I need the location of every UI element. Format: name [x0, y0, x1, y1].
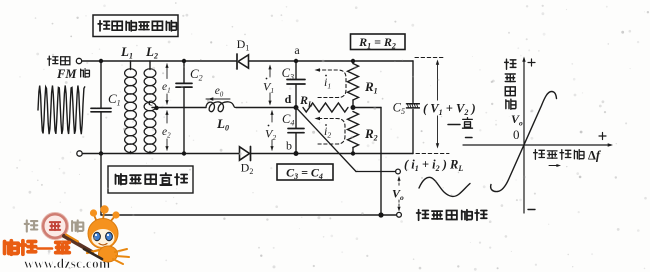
node C1 top [99, 59, 103, 63]
svg-text:L2: L2 [145, 44, 158, 61]
dimension arrow V1+V2 [437, 61, 439, 147]
svg-text:V2: V2 [265, 127, 276, 143]
svg-text:i2: i2 [324, 124, 331, 140]
label box: R1 = R2 [351, 34, 406, 50]
S curve [491, 92, 557, 192]
graph vertical axis [523, 59, 525, 214]
dashed ref line top [415, 57, 444, 59]
svg-text:R1 = R2: R1 = R2 [358, 35, 396, 51]
wire right edge lower [412, 110, 414, 154]
wire right edge upper [412, 61, 414, 103]
watermark 找 [25, 220, 38, 231]
wire center tap c [152, 107, 162, 109]
svg-text:D2: D2 [241, 161, 254, 177]
wire diagonal from node d [297, 109, 356, 172]
inductor L2 secondary coil [149, 61, 151, 70]
svg-text:e1: e1 [162, 81, 171, 95]
svg-text:R2: R2 [364, 126, 378, 143]
capacitor C1 [91, 107, 111, 109]
right arrow under axis label [549, 165, 559, 167]
wire C2 branch [183, 61, 185, 83]
svg-text:( i1 + i2 ) RL: ( i1 + i2 ) RL [404, 158, 463, 174]
resistor R2 [348, 112, 359, 148]
text: 输入 input [48, 56, 58, 65]
svg-text:D1: D1 [237, 37, 250, 53]
resistor R1 [352, 61, 354, 64]
wire C4 branch [295, 108, 297, 129]
svg-text:L1: L1 [120, 44, 133, 61]
label box: input tuning circuit 输入调谐回路 [93, 15, 178, 37]
diode D1 [236, 54, 238, 69]
svg-text:L0: L0 [216, 116, 229, 133]
input terminal top [76, 58, 81, 63]
wire bottom rail right of D2 [251, 153, 414, 155]
inductor L0 [206, 102, 236, 112]
node c [154, 106, 158, 110]
svg-text:V1: V1 [263, 80, 274, 96]
svg-text:a: a [294, 43, 300, 57]
node R1 R2 junction [351, 105, 356, 110]
svg-text:Δf: Δf [588, 149, 602, 163]
wire bottom rail left [83, 153, 240, 155]
e1 dimension arrow [166, 64, 168, 79]
node C1 bottom [99, 151, 103, 155]
wire to upper output terminal [356, 171, 396, 173]
label box: tuned at IF 调谐在中频 [108, 166, 193, 193]
wire top rail right of D1 [249, 60, 413, 62]
wire L0 to node d [236, 107, 296, 109]
capacitor C5 electrolytic [407, 103, 420, 105]
watermark 维库一下 [5, 241, 19, 255]
svg-text:C4: C4 [282, 112, 294, 128]
text (V1+V2) [420, 101, 481, 116]
capacitor C4 [288, 128, 304, 130]
capacitor C2 [176, 82, 192, 84]
node R2 bottom [351, 151, 355, 155]
svg-text:0: 0 [513, 127, 520, 142]
text 频率偏移 frequency deviation [534, 150, 545, 160]
node a [294, 59, 298, 63]
resistor RL horizontal [303, 103, 348, 112]
svg-text:i1: i1 [324, 75, 331, 91]
wire vertical drop to output [380, 108, 382, 216]
node b [294, 151, 299, 156]
plus right [599, 135, 606, 137]
diode D2 [240, 147, 250, 160]
output terminal lower [397, 212, 402, 217]
node d [294, 105, 299, 110]
svg-text:www.dzsc.com: www.dzsc.com [24, 256, 111, 271]
svg-text:RL: RL [299, 93, 313, 109]
input FM wave graphic [38, 86, 85, 135]
svg-text:C2: C2 [190, 66, 203, 83]
svg-text:( V1 + V2 ): ( V1 + V2 ) [423, 102, 476, 118]
current loop i1 dashed [318, 70, 346, 98]
svg-text:FM: FM [56, 67, 77, 81]
label box: C3 = C4 [277, 164, 333, 180]
svg-text:C3 = C4: C3 = C4 [286, 166, 323, 182]
wire junction to drop [353, 107, 381, 109]
V1 dimension arrow [269, 66, 271, 77]
svg-text:R1: R1 [364, 79, 378, 96]
wire ground drop left [100, 154, 102, 216]
text 输出电压 output voltage vertical [505, 59, 516, 69]
svg-text:b: b [286, 139, 292, 153]
text 一定 constant [448, 124, 460, 126]
text 输出信号波 output signal wave [417, 210, 429, 220]
svg-text:C1: C1 [108, 91, 121, 108]
wire bottom long rail [101, 214, 396, 216]
input terminal bottom [77, 151, 82, 156]
wire C3 branch [295, 61, 297, 79]
svg-text:C3: C3 [282, 66, 294, 82]
inductor L1 primary coil [130, 61, 132, 70]
node C2 top [182, 59, 186, 63]
V2 dimension arrow [271, 111, 273, 122]
node C2 bottom [182, 151, 186, 155]
svg-text:Vo: Vo [392, 187, 404, 203]
e2 dimension arrow [166, 111, 168, 123]
svg-text:e2: e2 [162, 126, 171, 140]
svg-text:Vo: Vo [511, 112, 523, 128]
node R1 top [351, 59, 355, 63]
e0 arrow [206, 98, 230, 100]
current loop i2 dashed [318, 119, 345, 145]
watermark magnifier handle [64, 236, 92, 252]
node bottom rail junction [378, 212, 383, 217]
output terminal upper [396, 169, 401, 174]
output signal sine wave [419, 177, 470, 196]
wire top rail [82, 60, 237, 62]
graph horizontal axis [463, 144, 611, 146]
Vo label with dashed arrows [398, 179, 400, 187]
plus top [528, 62, 535, 64]
watermark 片 [72, 220, 83, 231]
minus bottom [528, 209, 535, 211]
watermark magnifier [43, 214, 67, 238]
svg-text:e0: e0 [215, 85, 224, 99]
wire middle rail [162, 107, 206, 109]
svg-text:C5: C5 [393, 101, 405, 117]
capacitor C3 [287, 79, 305, 81]
dashed ref line bottom [416, 153, 449, 155]
svg-text:c: c [148, 97, 153, 109]
wire C1 branch [100, 61, 102, 108]
watermark mascot [84, 205, 129, 264]
minus sign [466, 137, 473, 139]
svg-text:d: d [285, 92, 292, 106]
